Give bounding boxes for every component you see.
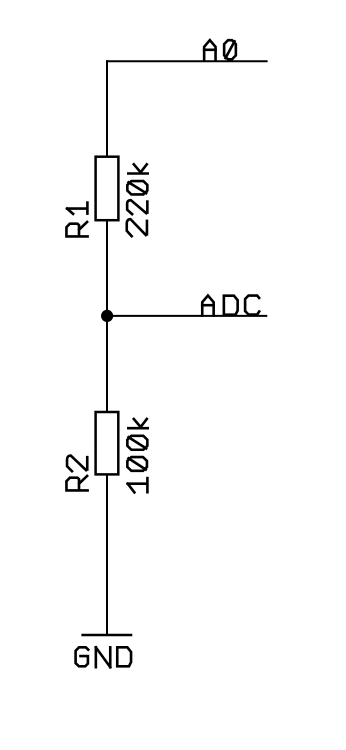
value 100k: glyph 0 (second) xyxy=(127,436,147,450)
ground label GND: glyph N xyxy=(96,647,110,667)
value 100k: glyph 0 xyxy=(127,457,147,471)
wire: net A0 horizontal xyxy=(107,60,267,62)
value 220k: glyph k xyxy=(128,164,147,173)
wire: A0 to R1 pin 1 xyxy=(106,61,108,156)
net label A0: glyph 0 xyxy=(224,40,236,59)
wire: net ADC horizontal xyxy=(107,315,266,317)
net label ADC: glyph D xyxy=(224,296,238,315)
reference R2: glyph R xyxy=(66,476,87,490)
resistor R1 body xyxy=(96,157,119,221)
ground label GND: glyph G xyxy=(76,647,89,666)
wire: R2 pin 2 to ground xyxy=(106,476,108,635)
value 220k: glyph 2 (second) xyxy=(127,200,147,214)
value 220k: glyph 0 xyxy=(127,181,147,194)
net label ADC: glyph C xyxy=(245,296,259,315)
reference R1: glyph R xyxy=(66,222,87,236)
ground label GND: glyph D xyxy=(117,647,131,666)
value 100k: glyph 1 xyxy=(128,478,148,492)
junction node ADC xyxy=(101,310,113,322)
wire: node ADC to R2 pin 1 xyxy=(106,316,108,412)
value 100k: glyph k xyxy=(128,419,147,428)
resistor R2 body xyxy=(96,412,119,474)
value 220k: glyph 2 xyxy=(127,219,147,236)
reference R2: glyph 2 xyxy=(67,456,87,472)
wire: R1 pin 2 to node ADC xyxy=(106,221,108,316)
reference R1: glyph 1 xyxy=(67,203,87,214)
ground symbol bar xyxy=(81,634,132,636)
net label A0: glyph A xyxy=(204,40,215,60)
net label ADC: glyph A xyxy=(202,296,213,316)
